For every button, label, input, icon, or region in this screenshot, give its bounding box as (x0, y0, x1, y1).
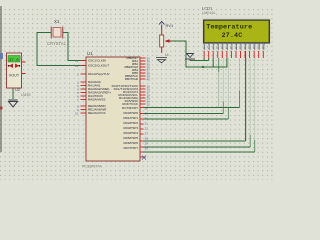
mcu right pin stubs RB RC (140, 58, 146, 104)
mcu left pin stubs (81, 61, 87, 114)
wire vertical pin4 (218, 58, 220, 108)
left edge clipped pin mark (0, 107, 3, 110)
svg-text:27.0: 27.0 (9, 59, 19, 63)
power terminal above pot (159, 21, 164, 29)
sheet border left edge (0, 6, 2, 152)
left edge clipped terminal (0, 53, 3, 59)
svg-text:40: 40 (147, 77, 151, 81)
svg-text:1k: 1k (165, 52, 169, 57)
ground near LCD (185, 54, 195, 61)
svg-text:X1: X1 (54, 19, 60, 24)
wire VSS VDD to ground (190, 60, 209, 62)
svg-text:RC7/RX/DT: RC7/RX/DT (122, 106, 138, 110)
svg-text:LM35: LM35 (21, 93, 31, 97)
junction dot (202, 66, 204, 68)
LCD pin numbers row (203, 43, 265, 47)
LCD pin names row (203, 46, 265, 50)
LM35 down arrow button (15, 64, 19, 69)
svg-text:RB7/PGD: RB7/PGD (125, 77, 139, 81)
wire crystal left to OSC2 loop (37, 33, 86, 66)
no-connect mark pin RD7 (142, 156, 146, 160)
svg-text:RD1/PSP1: RD1/PSP1 (123, 116, 138, 120)
svg-text:OSC1/CLKIN: OSC1/CLKIN (88, 59, 106, 63)
svg-text:20: 20 (145, 116, 149, 120)
LM35 up arrow button (9, 64, 13, 69)
wire VEE drop (212, 58, 214, 67)
svg-text:21: 21 (145, 121, 149, 125)
svg-text:Temperature: Temperature (206, 24, 252, 32)
wire E L (144, 58, 229, 119)
svg-text:RV1: RV1 (166, 23, 174, 28)
svg-text:RD4/PSP4: RD4/PSP4 (123, 131, 138, 135)
LM35 VOUT pin stub (22, 73, 26, 75)
svg-text:29: 29 (145, 141, 149, 145)
svg-text:OSC2/CLKOUT: OSC2/CLKOUT (88, 64, 109, 68)
svg-text:RD0/PSP0: RD0/PSP0 (123, 111, 138, 115)
svg-text:26: 26 (145, 106, 149, 110)
mcu right pin numbers (145, 56, 151, 150)
mcu right pin stubs RD (140, 108, 146, 158)
svg-text:RA5/AN4/SS: RA5/AN4/SS (88, 98, 105, 102)
LM35 U2 body (7, 53, 22, 88)
svg-text:27.4C: 27.4C (222, 32, 243, 40)
svg-text:MCLR/Vpp/THV: MCLR/Vpp/THV (88, 72, 110, 76)
svg-text:RE2/AN7/CS: RE2/AN7/CS (88, 111, 106, 115)
svg-text:LCD1: LCD1 (202, 6, 213, 11)
wire D6 L (144, 58, 255, 152)
wire crystal right to OSC1 (63, 33, 86, 61)
LM35 pin marker circle (20, 56, 22, 58)
mcu left pin numbers (75, 59, 79, 116)
svg-text:PIC16F877A: PIC16F877A (82, 165, 102, 169)
svg-text:RD7/PSP7: RD7/PSP7 (123, 146, 138, 150)
wire VSS drop (203, 58, 205, 61)
crystal X1 (51, 27, 63, 39)
wire RW L (144, 58, 224, 114)
LCD pin stubs (204, 51, 263, 58)
svg-text:LM016L: LM016L (202, 11, 216, 15)
wire pot wiper to VEE (172, 41, 227, 67)
svg-text:RD2/PSP2: RD2/PSP2 (123, 121, 138, 125)
svg-text:28: 28 (145, 136, 149, 140)
svg-text:CRYSTAL: CRYSTAL (47, 41, 67, 46)
wire RS L (144, 58, 240, 108)
wire D4 L (144, 58, 246, 141)
svg-text:U2: U2 (15, 87, 21, 92)
wire VDD drop (208, 58, 210, 61)
LCD LCD1 bezel (203, 19, 271, 45)
svg-text:27: 27 (145, 131, 149, 135)
pot RV1 (160, 29, 172, 53)
svg-text:U1: U1 (87, 51, 93, 56)
wire D5 L (144, 58, 251, 147)
svg-text:RD3/PSP3: RD3/PSP3 (123, 126, 138, 130)
ground under LM35 (9, 100, 18, 107)
svg-text:RD6/PSP6: RD6/PSP6 (123, 141, 138, 145)
LM35 +Vs pin stub (22, 61, 26, 63)
red wire segment under D4 (245, 51, 247, 62)
mcu U1 PIC16F877A body (86, 57, 140, 161)
svg-text:13: 13 (75, 59, 79, 63)
svg-text:14: 14 (75, 64, 79, 68)
ground under pot (156, 58, 167, 63)
svg-text:22: 22 (145, 126, 149, 130)
mcu left pin names (88, 59, 111, 116)
svg-text:RD5/PSP5: RD5/PSP5 (123, 136, 138, 140)
LCD pin names column smudges (205, 44, 264, 50)
LM35 GND pin stub (12, 88, 14, 99)
svg-text:VOUT: VOUT (9, 74, 20, 78)
svg-text:10: 10 (75, 112, 79, 116)
mcu right pin names (112, 56, 139, 150)
